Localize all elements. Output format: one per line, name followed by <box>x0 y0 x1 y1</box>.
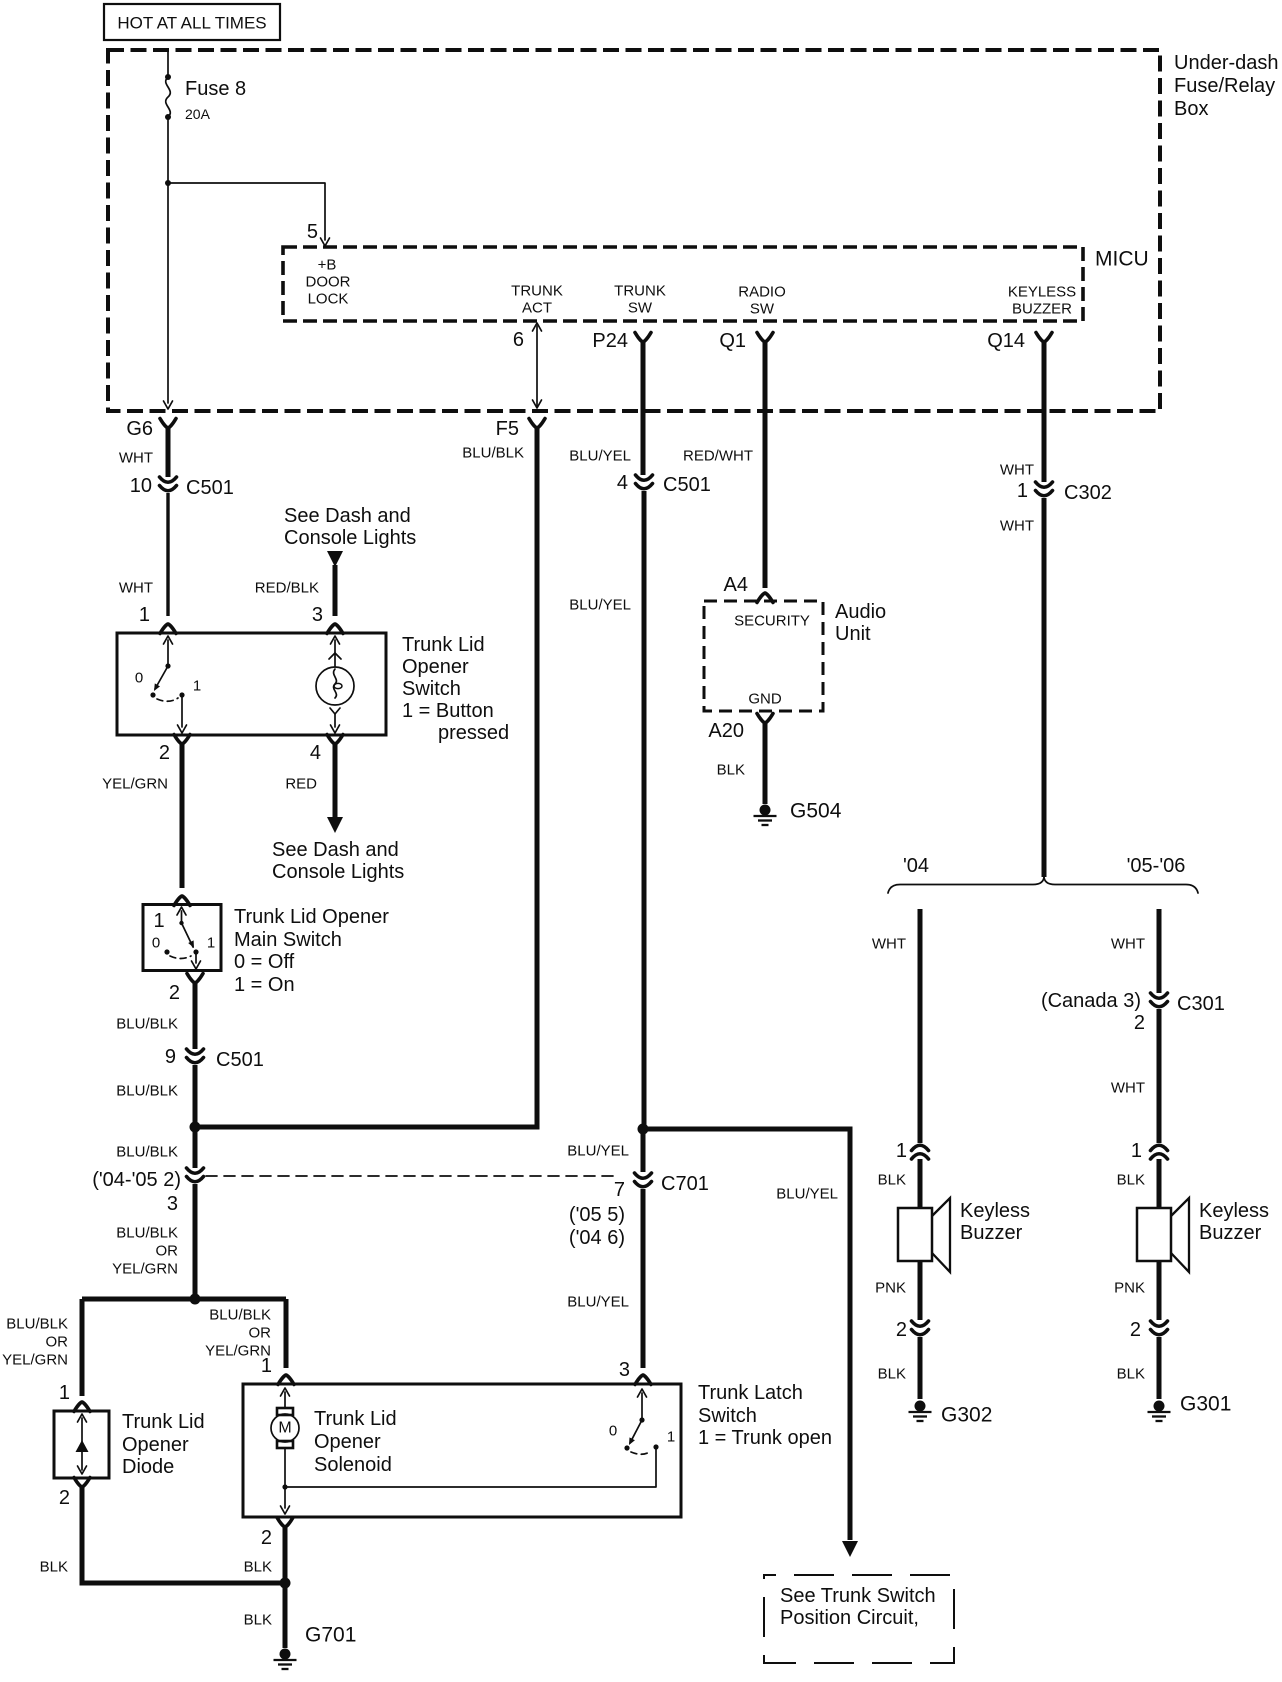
svg-text:WHT: WHT <box>1000 462 1034 479</box>
wire WHT 05-06 branch <box>1111 909 1159 993</box>
svg-text:1: 1 <box>59 1382 70 1404</box>
svg-text:('04 6): ('04 6) <box>569 1227 625 1249</box>
svg-text:ACT: ACT <box>522 300 552 317</box>
svg-text:1 = On: 1 = On <box>234 974 295 996</box>
svg-text:2: 2 <box>59 1487 70 1509</box>
svg-text:2: 2 <box>896 1319 907 1341</box>
svg-text:BLU/BLK: BLU/BLK <box>462 445 524 462</box>
wire BLU/BLK main sw to C501 pin 9 <box>116 983 195 1049</box>
svg-text:RED/WHT: RED/WHT <box>683 448 753 465</box>
label trunk latch switch <box>698 1382 832 1449</box>
connector C501 pin 10 <box>130 475 234 499</box>
solenoid M1 trunk lid opener solenoid (box) <box>243 1384 681 1517</box>
svg-text:A4: A4 <box>724 574 748 596</box>
svg-text:RED: RED <box>285 776 317 793</box>
svg-text:F5: F5 <box>496 418 519 440</box>
pin 1 trunk lid opener switch <box>139 604 176 634</box>
lamp inside opener switch <box>316 636 354 733</box>
wire fuse8 to G6 exit <box>164 119 173 409</box>
svg-text:HOT AT ALL TIMES: HOT AT ALL TIMES <box>117 14 266 33</box>
svg-text:G6: G6 <box>126 418 153 440</box>
switch S2 trunk lid opener main switch (box) <box>143 905 389 997</box>
svg-text:G701: G701 <box>305 1624 356 1647</box>
ground G301 <box>1148 1393 1232 1422</box>
svg-text:SW: SW <box>750 301 775 318</box>
svg-text:BLK: BLK <box>878 1366 906 1383</box>
svg-text:Keyless: Keyless <box>960 1200 1030 1222</box>
pin 3 trunk latch switch <box>619 1359 651 1385</box>
svg-text:TRUNK: TRUNK <box>614 283 666 300</box>
svg-text:Q14: Q14 <box>987 330 1025 352</box>
connector C501 pin 4 <box>617 472 711 496</box>
svg-text:BLU/BLK: BLU/BLK <box>209 1307 271 1324</box>
svg-text:BLU/BLK: BLU/BLK <box>116 1144 178 1161</box>
svg-text:A20: A20 <box>708 720 744 742</box>
wire WHT from Q14 <box>1000 342 1044 482</box>
incoming wire See Dash and Console Lights (RED/BLK) <box>255 505 417 616</box>
svg-text:C501: C501 <box>663 474 711 496</box>
switch S3 trunk latch switch contacts <box>609 1389 675 1454</box>
svg-text:KEYLESS: KEYLESS <box>1008 284 1076 301</box>
svg-text:Fuse/Relay: Fuse/Relay <box>1174 75 1275 97</box>
wire PNK buzzer to pin 2 (05-06) <box>1114 1261 1159 1320</box>
svg-text:Console Lights: Console Lights <box>284 527 416 549</box>
wire BLK to ground (05-06) <box>1117 1337 1159 1399</box>
svg-text:BLU/BLK: BLU/BLK <box>116 1225 178 1242</box>
power label HOT AT ALL TIMES <box>104 4 280 40</box>
svg-text:PNK: PNK <box>875 1280 906 1297</box>
svg-text:Switch: Switch <box>402 678 461 700</box>
svg-text:Diode: Diode <box>122 1456 174 1478</box>
pin 1 trunk lid opener diode <box>59 1382 90 1412</box>
svg-text:2: 2 <box>169 982 180 1004</box>
pin A4 audio unit <box>724 574 773 603</box>
pin G6 connector <box>126 418 176 440</box>
svg-text:BLU/YEL: BLU/YEL <box>567 1294 629 1311</box>
svg-text:WHT: WHT <box>119 580 153 597</box>
pin 2 main switch <box>169 974 203 1005</box>
svg-text:Unit: Unit <box>835 623 871 645</box>
svg-text:BLU/YEL: BLU/YEL <box>569 448 631 465</box>
pin P24 TRUNK SW connector <box>592 330 651 352</box>
wire BLK solenoid to ground <box>244 1527 285 1648</box>
svg-text:OR: OR <box>249 1325 272 1342</box>
svg-text:BLK: BLK <box>244 1559 272 1576</box>
svg-text:BLU/YEL: BLU/YEL <box>776 1186 838 1203</box>
svg-text:1: 1 <box>207 935 215 952</box>
pin 1 keyless buzzer (04) <box>896 1140 929 1162</box>
pin 1 main switch <box>174 896 190 906</box>
svg-text:Trunk Lid Opener: Trunk Lid Opener <box>234 906 389 928</box>
pin 1 trunk lid opener solenoid <box>261 1355 294 1385</box>
pin 2 solenoid <box>261 1518 293 1550</box>
svg-text:BLK: BLK <box>1117 1366 1145 1383</box>
svg-text:BLU/BLK: BLU/BLK <box>116 1016 178 1033</box>
svg-text:1: 1 <box>139 604 150 626</box>
svg-text:MICU: MICU <box>1095 248 1149 271</box>
year split brace 04 / 05-06 <box>888 855 1198 893</box>
svg-text:See Dash and: See Dash and <box>284 505 411 527</box>
pin 1 keyless buzzer (05-06) <box>1131 1140 1168 1162</box>
connector C501 pin 9 <box>165 1046 264 1071</box>
svg-text:'04: '04 <box>903 855 929 877</box>
svg-text:Fuse 8: Fuse 8 <box>185 78 246 100</box>
svg-text:5: 5 <box>307 221 318 243</box>
wire branch BLU/YEL to trunk switch position circuit <box>643 1129 858 1557</box>
svg-text:Opener: Opener <box>314 1431 381 1453</box>
wire BLK audio to ground <box>717 723 765 804</box>
pin Q14 KEYLESS BUZZER connector <box>987 330 1052 352</box>
svg-text:1 = Trunk open: 1 = Trunk open <box>698 1427 832 1449</box>
wire BLU/YEL to junction <box>569 491 644 1129</box>
MICU pin name KEYLESS BUZZER <box>1008 284 1076 318</box>
svg-text:See Dash and: See Dash and <box>272 839 399 861</box>
svg-text:('05 5): ('05 5) <box>569 1204 625 1226</box>
dashed separator line <box>206 1175 620 1177</box>
pin 2 diode <box>59 1478 90 1510</box>
wire BLU/YEL to latch pin 3 <box>567 1189 643 1368</box>
svg-text:WHT: WHT <box>1111 1080 1145 1097</box>
diode D1 trunk lid opener diode <box>54 1411 205 1478</box>
svg-text:C301: C301 <box>1177 993 1225 1015</box>
svg-text:BLK: BLK <box>1117 1172 1145 1189</box>
audio unit (dashed box) <box>704 601 886 711</box>
svg-text:OR: OR <box>46 1334 69 1351</box>
ground G504 <box>754 800 842 826</box>
svg-text:2: 2 <box>159 742 170 764</box>
svg-text:TRUNK: TRUNK <box>511 283 563 300</box>
pin 2 keyless buzzer (05-06) <box>1130 1319 1168 1341</box>
ground G302 <box>909 1401 993 1427</box>
pin F5 connector <box>496 418 545 440</box>
wire inside solenoid to latch switch <box>285 1449 656 1487</box>
wire BLU/BLK OR YEL/GRN to lower junction <box>112 1184 195 1294</box>
switch S1 trunk lid opener switch (box) <box>117 633 509 744</box>
svg-text:WHT: WHT <box>1000 518 1034 535</box>
svg-text:3: 3 <box>619 1359 630 1381</box>
svg-text:BLU/BLK: BLU/BLK <box>116 1083 178 1100</box>
wire BLU/BLK junction to 04-05 connector <box>116 1127 195 1168</box>
connector C701 pin 7 <box>569 1173 709 1249</box>
ground G701 <box>274 1624 357 1670</box>
node fuse junction <box>165 180 171 186</box>
svg-text:DOOR: DOOR <box>306 274 351 291</box>
svg-text:Trunk Lid: Trunk Lid <box>122 1411 205 1433</box>
svg-text:OR: OR <box>156 1243 179 1260</box>
svg-text:0: 0 <box>152 935 160 952</box>
svg-text:3: 3 <box>167 1193 178 1215</box>
svg-text:C701: C701 <box>661 1173 709 1195</box>
svg-text:C302: C302 <box>1064 482 1112 504</box>
svg-text:1: 1 <box>193 678 201 695</box>
keyless buzzer (05-06) <box>1137 1198 1269 1272</box>
svg-text:P24: P24 <box>592 330 628 352</box>
wire BLU/BLK to junction <box>116 1065 195 1127</box>
svg-text:Main Switch: Main Switch <box>234 929 342 951</box>
wire WHT to buzzer (05-06) <box>1111 1009 1159 1143</box>
wire YEL/GRN opener sw pin2 to main sw pin1 <box>102 744 182 888</box>
wire RED to See Dash and Console Lights <box>272 744 404 883</box>
pin Q1 RADIO SW connector <box>719 330 773 352</box>
svg-text:1: 1 <box>1017 480 1028 502</box>
svg-text:2: 2 <box>1130 1319 1141 1341</box>
svg-text:RADIO: RADIO <box>738 284 786 301</box>
svg-text:10: 10 <box>130 475 152 497</box>
MICU pin name TRUNK SW <box>614 283 666 317</box>
svg-text:Switch: Switch <box>698 1405 757 1427</box>
svg-text:BLK: BLK <box>878 1172 906 1189</box>
svg-text:20A: 20A <box>185 106 211 122</box>
svg-text:LOCK: LOCK <box>308 291 349 308</box>
wire RED/WHT RADIO SW from Q1 <box>683 342 765 588</box>
wire WHT 04 branch <box>872 909 920 1143</box>
svg-text:('04-'05 2): ('04-'05 2) <box>92 1169 181 1191</box>
svg-text:G301: G301 <box>1180 1393 1231 1416</box>
svg-text:C501: C501 <box>186 477 234 499</box>
wire BLU/YEL TRUNK SW from P24 <box>569 342 643 475</box>
svg-text:7: 7 <box>614 1179 625 1201</box>
svg-text:1 = Button: 1 = Button <box>402 700 494 722</box>
MICU pin name +B DOOR LOCK <box>306 257 351 308</box>
wire BLK to buzzer (04) <box>878 1159 920 1207</box>
svg-text:Buzzer: Buzzer <box>960 1222 1023 1244</box>
svg-text:'05-'06: '05-'06 <box>1127 855 1186 877</box>
reference box See Trunk Switch Position Circuit <box>764 1575 954 1663</box>
svg-text:C501: C501 <box>216 1049 264 1071</box>
svg-text:SECURITY: SECURITY <box>734 613 810 630</box>
svg-text:pressed: pressed <box>438 722 509 744</box>
svg-text:4: 4 <box>310 742 321 764</box>
svg-text:Trunk Lid: Trunk Lid <box>402 634 485 656</box>
svg-text:0 = Off: 0 = Off <box>234 951 295 973</box>
svg-text:BLU/YEL: BLU/YEL <box>567 1143 629 1160</box>
svg-text:Audio: Audio <box>835 601 886 623</box>
svg-text:BLK: BLK <box>40 1559 68 1576</box>
node BLK junction <box>280 1578 291 1589</box>
svg-text:1: 1 <box>153 910 164 932</box>
svg-text:9: 9 <box>165 1046 176 1068</box>
svg-text:PNK: PNK <box>1114 1280 1145 1297</box>
svg-text:1: 1 <box>261 1355 272 1377</box>
wire BLK to ground (04) <box>878 1337 920 1399</box>
svg-text:Opener: Opener <box>122 1434 189 1456</box>
svg-text:YEL/GRN: YEL/GRN <box>102 776 168 793</box>
svg-text:1: 1 <box>667 1429 675 1446</box>
svg-text:YEL/GRN: YEL/GRN <box>112 1261 178 1278</box>
svg-text:Position Circuit,: Position Circuit, <box>780 1607 919 1629</box>
MICU pin name RADIO SW <box>738 284 786 318</box>
svg-text:Console Lights: Console Lights <box>272 861 404 883</box>
svg-text:G504: G504 <box>790 800 842 823</box>
under-dash fuse/relay box (dashed enclosure) <box>108 50 1279 411</box>
svg-text:WHT: WHT <box>872 936 906 953</box>
keyless buzzer (04) <box>898 1198 1030 1272</box>
pin 4 opener switch <box>310 735 343 765</box>
svg-text:4: 4 <box>617 472 628 494</box>
svg-text:3: 3 <box>312 604 323 626</box>
switch S1 contacts and blade <box>135 636 201 733</box>
pin 2 opener switch <box>159 735 190 765</box>
svg-text:(Canada 3): (Canada 3) <box>1041 990 1141 1012</box>
svg-text:BUZZER: BUZZER <box>1012 301 1072 318</box>
svg-text:BLU/YEL: BLU/YEL <box>569 597 631 614</box>
svg-text:Opener: Opener <box>402 656 469 678</box>
wire F5 BLU/BLK down and across <box>195 428 537 1127</box>
wire G6 WHT <box>119 428 168 477</box>
svg-text:Box: Box <box>1174 98 1208 120</box>
svg-text:Under-dash: Under-dash <box>1174 52 1279 74</box>
svg-text:1: 1 <box>1131 1140 1142 1162</box>
svg-text:G302: G302 <box>941 1404 992 1427</box>
svg-text:0: 0 <box>135 670 143 687</box>
wire BLK to buzzer (05-06) <box>1117 1159 1159 1207</box>
svg-text:BLK: BLK <box>717 762 745 779</box>
svg-text:Solenoid: Solenoid <box>314 1454 392 1476</box>
svg-text:Trunk Lid: Trunk Lid <box>314 1408 397 1430</box>
svg-text:1: 1 <box>896 1140 907 1162</box>
svg-text:+B: +B <box>318 257 337 274</box>
svg-text:Keyless: Keyless <box>1199 1200 1269 1222</box>
svg-text:0: 0 <box>609 1423 617 1440</box>
svg-text:Buzzer: Buzzer <box>1199 1222 1262 1244</box>
svg-text:6: 6 <box>513 329 524 351</box>
MICU pin name TRUNK ACT <box>511 283 563 317</box>
wire BLK diode to ground junction <box>40 1487 285 1583</box>
wire PNK buzzer to pin 2 (04) <box>875 1261 920 1320</box>
svg-text:YEL/GRN: YEL/GRN <box>2 1352 68 1369</box>
svg-text:SW: SW <box>628 300 653 317</box>
svg-text:RED/BLK: RED/BLK <box>255 580 319 597</box>
wire BLU/YEL junction to C701 <box>567 1129 643 1172</box>
motor M inside solenoid <box>271 1388 299 1514</box>
wire MICU pin 6 TRUNK ACT to F5 <box>513 323 542 408</box>
svg-text:WHT: WHT <box>1111 936 1145 953</box>
node lower junction <box>190 1294 201 1305</box>
pin 3 trunk lid opener switch <box>312 604 343 634</box>
svg-text:See Trunk Switch: See Trunk Switch <box>780 1585 936 1607</box>
svg-text:BLU/BLK: BLU/BLK <box>6 1316 68 1333</box>
wire branch to diode and solenoid <box>2 1299 286 1396</box>
pin A20 audio unit <box>708 714 773 743</box>
svg-text:M: M <box>278 1420 291 1437</box>
svg-text:WHT: WHT <box>119 450 153 467</box>
wire WHT to switch pin 1 <box>119 493 168 616</box>
svg-text:Q1: Q1 <box>719 330 746 352</box>
svg-text:2: 2 <box>261 1527 272 1549</box>
connector C301 pin 2 (Canada 3) <box>1041 990 1225 1034</box>
pin 2 keyless buzzer (04) <box>896 1319 929 1341</box>
svg-text:BLK: BLK <box>244 1612 272 1629</box>
wire jumper to MICU pin 5 <box>168 183 330 246</box>
wire WHT to year split <box>1000 498 1044 877</box>
MICU module (dashed box) <box>283 247 1149 321</box>
connector C302 pin 1 <box>1017 480 1112 504</box>
node BLU/YEL junction <box>638 1124 649 1135</box>
fuse F8 (Fuse 8, 20A) <box>165 52 246 122</box>
connector (04-05 pin 2) inline <box>92 1168 203 1215</box>
node junction with F5 branch <box>190 1122 201 1133</box>
switch S2 contacts and blade <box>152 907 215 969</box>
svg-text:2: 2 <box>1134 1012 1145 1034</box>
svg-text:GND: GND <box>748 691 782 708</box>
svg-text:Trunk Latch: Trunk Latch <box>698 1382 803 1404</box>
